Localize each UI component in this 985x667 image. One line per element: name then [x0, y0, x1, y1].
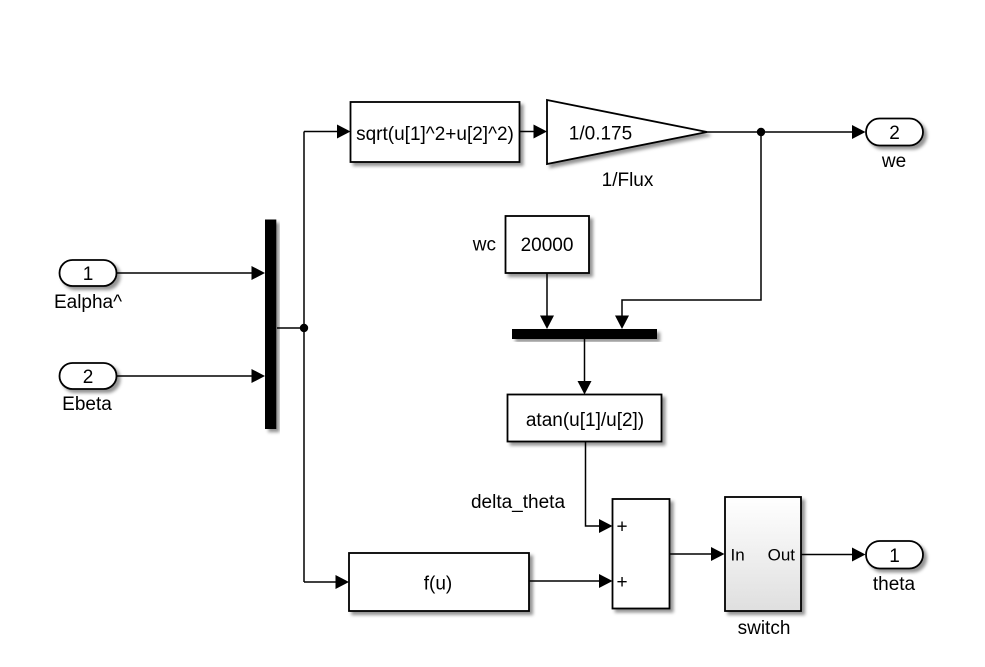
block f(u) [349, 553, 529, 611]
svg-text:wc: wc [472, 235, 496, 256]
wire trunk to sqrt block [304, 125, 351, 139]
svg-text:delta_theta: delta_theta [471, 492, 565, 513]
wire mux1 output stub [277, 327, 304, 329]
svg-text:2: 2 [889, 123, 900, 144]
svg-text:In: In [731, 546, 745, 565]
svg-text:we: we [881, 151, 906, 172]
wire switch to outport theta [801, 548, 866, 562]
wire junction down to mux2 [615, 132, 761, 329]
svg-text:sqrt(u[1]^2+u[2]^2): sqrt(u[1]^2+u[2]^2) [356, 124, 514, 145]
constant 20000 [506, 216, 590, 273]
gain 1/0.175 (1/Flux) [547, 100, 707, 164]
svg-text:Ealpha^: Ealpha^ [54, 292, 122, 313]
svg-text:+: + [617, 572, 628, 593]
wire gain to outport we [707, 125, 866, 139]
junction node at trunk [300, 324, 308, 332]
svg-text:Out: Out [768, 546, 796, 565]
outport 1 [866, 541, 923, 569]
svg-text:2: 2 [83, 367, 94, 388]
block atan [508, 395, 662, 442]
inport 1 [60, 260, 117, 286]
wire inport2 to mux1 [117, 369, 266, 383]
wire inport1 to mux1 [117, 266, 266, 280]
mux Mux2 [512, 329, 657, 339]
svg-text:1/Flux: 1/Flux [602, 170, 654, 191]
svg-text:theta: theta [873, 574, 916, 595]
svg-text:switch: switch [738, 618, 791, 639]
wire sum to switch [670, 547, 725, 561]
svg-text:1: 1 [889, 546, 900, 567]
inport 2 [60, 363, 117, 389]
wire trunk vertical [303, 132, 305, 583]
svg-text:atan(u[1]/u[2]): atan(u[1]/u[2]) [526, 410, 644, 431]
wire atan to sum input 1 [586, 442, 613, 534]
junction dot on we wire [757, 128, 765, 136]
svg-text:f(u): f(u) [424, 574, 453, 595]
wire f(u) to sum input 2 [529, 574, 613, 588]
sum block [613, 499, 670, 609]
svg-text:1: 1 [83, 264, 94, 285]
svg-text:1/0.175: 1/0.175 [569, 124, 632, 145]
svg-text:20000: 20000 [521, 235, 574, 256]
outport 2 [866, 119, 923, 146]
mux Mux1 [265, 220, 276, 430]
svg-text:+: + [617, 517, 628, 538]
wire sqrt to gain [520, 125, 548, 139]
wire trunk to f(u) block [304, 575, 349, 589]
block Fcn sqrt [351, 102, 520, 162]
svg-text:Ebeta: Ebeta [62, 394, 112, 415]
wire constant to mux2 [540, 274, 554, 330]
subsystem switch [725, 497, 801, 611]
wire mux2 to atan [578, 339, 592, 395]
